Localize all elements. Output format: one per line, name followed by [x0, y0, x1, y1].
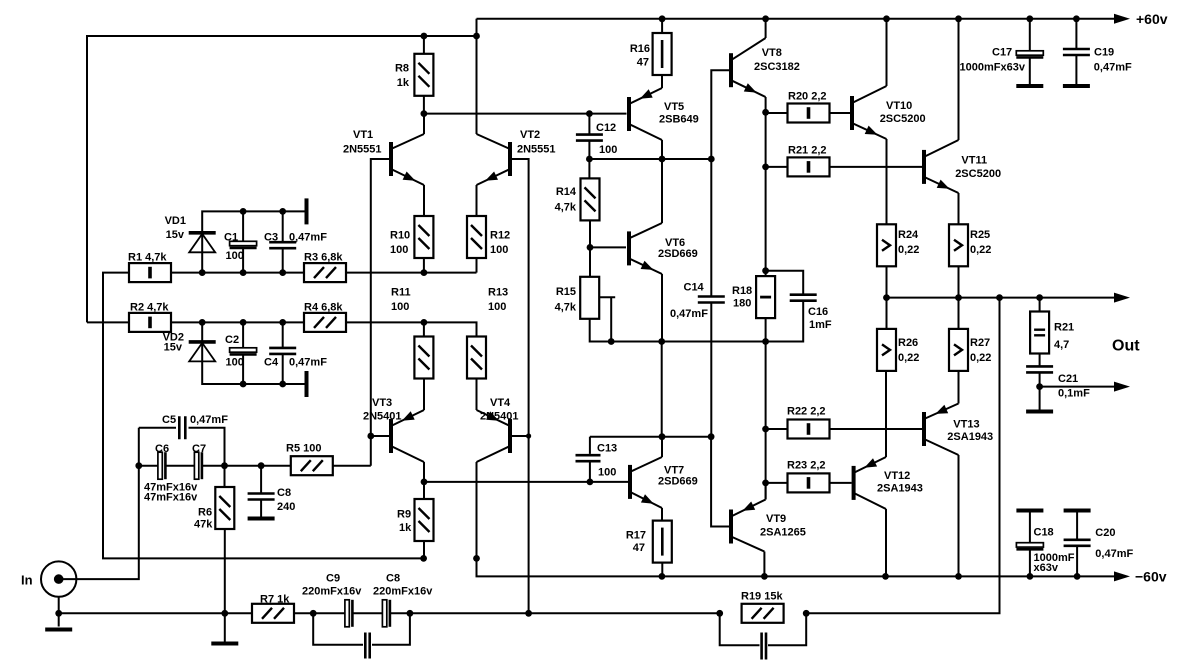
svg-text:2SA1943: 2SA1943: [947, 431, 993, 443]
junction C2 top: [240, 319, 247, 326]
junction R8 top on y36: [421, 33, 428, 40]
svg-text:0,22: 0,22: [970, 352, 991, 364]
wire R2 left: [87, 321, 129, 323]
wire R22 to VT13 base: [830, 428, 923, 430]
svg-text:R15: R15: [556, 286, 576, 298]
junction VT4 collector to -60: [473, 555, 480, 562]
junction In ground to bus: [55, 610, 62, 617]
ground R6: [211, 642, 238, 646]
svg-text:15v: 15v: [166, 229, 185, 241]
wire C13 bottom: [589, 461, 591, 482]
junction C3 top: [279, 208, 286, 215]
wire ground bus to R7: [59, 612, 252, 614]
svg-text:VT9: VT9: [766, 513, 786, 525]
svg-text:2N5401: 2N5401: [480, 411, 519, 423]
junction C20/-60: [1074, 573, 1081, 580]
wire C17 top lead: [1029, 19, 1031, 51]
wire C19 top lead: [1075, 19, 1077, 50]
wire C13 top: [589, 437, 591, 454]
transistor VT4 2N5401: [508, 419, 512, 453]
wire VT7 emitter to R17: [661, 508, 663, 522]
svg-text:R24: R24: [898, 229, 919, 241]
wire R18 top: [765, 271, 767, 277]
capacitor C9 220mF: [345, 600, 349, 627]
wire VT10 emitter to R24: [886, 139, 888, 225]
wire feedback node to R19: [529, 612, 720, 614]
svg-text:R26: R26: [898, 337, 918, 349]
wire C2 top lead: [242, 322, 244, 347]
svg-text:C8: C8: [277, 487, 291, 499]
svg-text:0,47mF: 0,47mF: [1094, 62, 1132, 74]
wire In signal: [59, 428, 139, 579]
zener diode VD1: [189, 231, 216, 235]
junction y36 to +60 riser: [473, 33, 480, 40]
wire R27 to VT13 emitter: [958, 370, 960, 403]
svg-text:Out: Out: [1112, 338, 1140, 355]
wire R9 top: [423, 482, 425, 500]
svg-text:C7: C7: [192, 443, 206, 455]
wire C20 top lead: [1076, 513, 1078, 540]
junction C13 bottom: [587, 479, 594, 486]
junction C2 bottom: [240, 381, 247, 388]
wire R7 to C9: [295, 612, 346, 614]
svg-text:R14: R14: [556, 186, 577, 198]
svg-text:R7 1k: R7 1k: [260, 594, 290, 606]
wire C8 top lead: [260, 466, 262, 493]
resistor R19: [742, 604, 784, 623]
wire C19 bottom lead: [1075, 55, 1077, 84]
svg-text:2SA1265: 2SA1265: [760, 527, 806, 539]
svg-text:VT5: VT5: [664, 101, 684, 113]
net Out rail: [887, 297, 1115, 299]
wire R16 bottom to VT5 emitter: [661, 75, 663, 88]
svg-text:C8: C8: [386, 573, 400, 585]
junction R8/VT1 collector: [421, 110, 428, 117]
wire VD1/C1/C3 top line y211.4: [202, 211, 306, 272]
transistor VT6 2SD669: [627, 231, 631, 265]
net +60v rail: [477, 18, 1115, 20]
svg-text:R16: R16: [630, 43, 650, 55]
transistor VT12 2SA1943: [852, 466, 856, 500]
arrow Out: [1114, 293, 1130, 303]
wire bypass loop under C9/C8: [313, 613, 363, 645]
wire R1 to R3: [171, 272, 304, 274]
svg-text:R4 6,8k: R4 6,8k: [304, 302, 343, 314]
junction VD1 bottom: [199, 269, 206, 276]
svg-text:R21: R21: [1054, 322, 1074, 334]
arrow return: [1114, 382, 1130, 392]
junction R21 Zobel top: [1036, 294, 1043, 301]
junction C14 bottom / VT9 base: [708, 433, 715, 440]
svg-text:C16: C16: [808, 306, 828, 318]
junction R21 left: [762, 164, 769, 171]
capacitor C19: [1063, 49, 1090, 55]
transistor VT3 2N5401: [389, 419, 393, 453]
resistor R4: [304, 313, 346, 332]
wire VT4 collector to -60: [476, 462, 478, 558]
svg-text:240: 240: [277, 501, 295, 513]
svg-text:VT12: VT12: [884, 470, 910, 482]
wire C14 bottom to VT9 base node: [710, 304, 712, 437]
wire R25 to Out: [958, 266, 960, 298]
junction R9 bottom on -60 line: [420, 555, 427, 562]
svg-text:47mFx16v: 47mFx16v: [144, 492, 198, 504]
wire VT2 emitter to R12: [476, 185, 478, 217]
wire R14 to R15: [589, 220, 591, 278]
wire C18 top lead: [1029, 513, 1031, 543]
svg-text:C20: C20: [1095, 527, 1115, 539]
junction C1 top: [240, 208, 247, 215]
resistor R1: [129, 263, 171, 282]
transistor VT8 2SC3182: [729, 53, 733, 87]
wire VT6 collector: [661, 159, 663, 223]
junction R23 left / VT9 emitter: [762, 480, 769, 487]
wire R22 left: [766, 428, 788, 430]
wire VT8 collector to +60: [765, 19, 767, 38]
svg-text:VD1: VD1: [165, 215, 186, 227]
svg-text:C6: C6: [155, 443, 169, 455]
svg-text:2SD669: 2SD669: [658, 476, 698, 488]
wire VAS upper bus y159: [589, 158, 711, 160]
junction C8 right: [407, 610, 414, 617]
svg-text:220mFx16v: 220mFx16v: [373, 586, 433, 598]
wire R2 to R4: [171, 321, 304, 323]
svg-text:C9: C9: [326, 573, 340, 585]
svg-text:C19: C19: [1094, 47, 1114, 59]
wire VT3 collector to R9 node: [423, 462, 425, 482]
wire C12 bottom lead: [588, 141, 590, 159]
wire R8 top: [423, 36, 425, 53]
wire VT1 collector: [423, 114, 425, 134]
ground wall C4 row: [305, 371, 309, 397]
resistor R22: [788, 420, 830, 439]
svg-text:4,7: 4,7: [1054, 339, 1069, 351]
junction VT11/+60: [955, 15, 962, 22]
svg-text:R11: R11: [391, 287, 411, 299]
transistor VT1 2N5551: [389, 142, 393, 176]
wire C5 loop top: [139, 427, 176, 429]
wire VT8 emitter down: [765, 97, 767, 271]
resistor R13: [467, 337, 486, 379]
svg-text:2SD669: 2SD669: [658, 248, 698, 260]
wire R6 bottom to ground: [224, 529, 226, 642]
wire VT1 base riser x370.8: [371, 159, 389, 466]
wire VT6 base: [590, 246, 626, 248]
wire R26 to VT12 emitter: [885, 370, 887, 457]
svg-text:In: In: [21, 573, 33, 588]
wire R11 bottom to VT3 emitter: [423, 379, 425, 411]
wire VT2 collector to +60: [476, 19, 478, 134]
connector In jack: [41, 561, 76, 596]
svg-text:47: 47: [633, 542, 645, 554]
resistor R20: [788, 104, 830, 123]
wire C6 to C7: [167, 465, 195, 467]
wire In ground: [58, 597, 60, 627]
junction R19 left: [716, 610, 723, 617]
svg-text:R27: R27: [970, 337, 990, 349]
wire R17 bottom: [661, 563, 663, 577]
wire VT3 base stub: [371, 435, 389, 437]
wire C4 bottom lead: [282, 354, 284, 385]
resistor R12: [467, 216, 486, 258]
wire VT10 collector to +60: [886, 19, 888, 86]
wire C5 right down: [189, 428, 225, 466]
wire C12 top lead: [588, 114, 590, 134]
resistor R3: [304, 263, 346, 282]
junction R11 top: [421, 319, 428, 326]
wire VT1 emitter to R10: [423, 185, 425, 217]
resistor R14: [581, 178, 600, 220]
svg-text:R9: R9: [397, 509, 411, 521]
wire R6 top: [224, 466, 226, 487]
junction C3 bottom: [279, 269, 286, 276]
svg-text:C4: C4: [264, 357, 279, 369]
junction VD2 top: [199, 319, 206, 326]
svg-text:C21: C21: [1058, 373, 1078, 385]
svg-text:2SC3182: 2SC3182: [754, 61, 800, 73]
capacitor C8 220mF: [382, 600, 386, 627]
junction C12 top: [586, 110, 593, 117]
wire VT9 collector to -60: [763, 552, 765, 577]
wire R15 wiper tap: [599, 296, 615, 298]
svg-text:R2 4,7k: R2 4,7k: [130, 302, 169, 314]
svg-text:R22 2,2: R22 2,2: [787, 406, 826, 418]
svg-text:C3: C3: [264, 232, 278, 244]
transistor VT11 2SC5200: [922, 150, 926, 184]
svg-text:−60v: −60v: [1135, 569, 1167, 585]
capacitor C4: [269, 348, 296, 354]
wire Out to R27: [958, 298, 960, 330]
wire C18 bottom lead: [1029, 549, 1031, 576]
svg-text:C12: C12: [596, 122, 616, 134]
svg-text:0,47mF: 0,47mF: [670, 308, 708, 320]
svg-text:2SB649: 2SB649: [659, 114, 699, 126]
svg-text:0,22: 0,22: [970, 244, 991, 256]
capacitor C18: [1016, 543, 1043, 547]
junction C8 top: [258, 462, 265, 469]
svg-text:100: 100: [598, 467, 616, 479]
svg-text:0,47mF: 0,47mF: [1095, 548, 1133, 560]
wire +60 feed to R2 (x87,y36): [87, 36, 477, 322]
ground C8 240: [248, 517, 275, 521]
svg-text:R25: R25: [970, 229, 990, 241]
ground C19: [1063, 84, 1090, 88]
capacitor C1: [230, 241, 257, 245]
resistor R21 Zobel: [1030, 312, 1049, 354]
capacitor C2: [230, 348, 257, 352]
junction C18/-60: [1027, 573, 1034, 580]
svg-text:15v: 15v: [164, 342, 183, 354]
wire VT6 emitter: [661, 274, 663, 342]
resistor R5: [291, 456, 333, 475]
transistor VT9 2SA1265: [729, 510, 733, 544]
junction VT6 emitter: [658, 338, 665, 345]
junction feedback takeoff: [996, 294, 1003, 301]
wire R21 left: [766, 166, 788, 168]
wire R10 bottom: [423, 257, 425, 272]
resistor R21: [788, 157, 830, 176]
svg-text:0,47mF: 0,47mF: [289, 232, 327, 244]
svg-text:R20 2,2: R20 2,2: [788, 91, 827, 103]
svg-text:4,7k: 4,7k: [555, 302, 577, 314]
net -60v rail: [477, 558, 1115, 576]
transistor VT2 2N5551: [508, 142, 512, 176]
wire VAS input bus y113.6: [424, 113, 627, 115]
junction R18 bottom: [762, 338, 769, 345]
wire C7 to R5: [203, 465, 292, 467]
resistor R16: [653, 33, 672, 75]
wire VT12 collector to -60: [885, 509, 887, 576]
wire VT11 emitter to R25: [958, 193, 960, 225]
wire C8 bottom lead: [260, 500, 262, 517]
svg-text:R5 100: R5 100: [286, 443, 321, 455]
wire C3 bottom lead: [282, 248, 284, 273]
wire VD2/C2/C4 bottom line y384: [202, 322, 306, 384]
wire VT2 base riser x528.6: [512, 159, 529, 613]
wire R8 bottom: [423, 96, 425, 113]
svg-text:1000mFx63v: 1000mFx63v: [960, 62, 1026, 74]
svg-text:100: 100: [488, 301, 506, 313]
resistor R9: [415, 499, 434, 541]
wire R18 bottom: [765, 318, 767, 342]
svg-text:100: 100: [490, 244, 508, 256]
capacitor C5: [179, 416, 185, 439]
resistor R11: [414, 337, 433, 379]
wire R24 to Out: [886, 266, 888, 298]
transistor VT13 2SA1943: [922, 412, 926, 446]
junction C21/return: [1036, 383, 1043, 390]
junction R18 top: [762, 267, 769, 274]
wire +60 riser x476: [476, 19, 478, 36]
capacitor C3: [269, 242, 296, 248]
junction R9 top / VT3 collector: [421, 479, 428, 486]
resistor R10: [414, 216, 433, 258]
wire R20 to VT10 base: [830, 112, 851, 114]
wire R21 Zobel top: [1039, 298, 1041, 312]
wire C20 bottom lead: [1076, 545, 1078, 576]
wire VT6 emitter node down to C13 line: [661, 342, 663, 437]
wire R23 left: [766, 482, 788, 484]
svg-text:2N5551: 2N5551: [517, 144, 556, 156]
junction VT7 collector: [659, 433, 666, 440]
svg-text:C17: C17: [992, 47, 1012, 59]
junction R20 left: [762, 109, 769, 116]
junction C9 left: [310, 610, 317, 617]
junction VT12/-60: [882, 573, 889, 580]
svg-text:R17: R17: [626, 530, 646, 542]
svg-text:1k: 1k: [397, 77, 410, 89]
svg-text:R13: R13: [488, 287, 508, 299]
junction VT6 base: [587, 244, 594, 251]
svg-text:47: 47: [637, 57, 649, 69]
junction VT3 base: [367, 433, 374, 440]
svg-text:R18: R18: [732, 285, 752, 297]
wire R16 top: [661, 19, 663, 33]
junction C19/+60: [1073, 15, 1080, 22]
wire C1 top lead: [242, 211, 244, 241]
wire C3 top lead: [282, 211, 284, 242]
svg-text:1mF: 1mF: [809, 319, 832, 331]
wire R15 bottom: [590, 319, 766, 342]
wire R20 left: [766, 112, 788, 114]
wire R11 top: [423, 322, 425, 336]
svg-text:R1 4,7k: R1 4,7k: [128, 252, 167, 264]
svg-text:R8: R8: [395, 63, 409, 75]
wire R21 to VT11 base: [830, 166, 923, 168]
resistor R8: [414, 54, 433, 96]
junction VT8/+60: [762, 15, 769, 22]
capacitor bypass loop: [365, 633, 369, 659]
wire VT9 emitter up: [765, 483, 767, 500]
capacitor C20: [1064, 540, 1091, 546]
wire C9 to C8: [354, 612, 383, 614]
wire C13 to VT7 base: [590, 481, 628, 483]
wire R5 to VT1/VT3 base riser: [332, 465, 371, 467]
svg-text:C18: C18: [1034, 527, 1054, 539]
resistor R17: [653, 521, 672, 563]
junction VT8 base: [708, 156, 715, 163]
junction feedback node: [525, 610, 532, 617]
svg-text:VT10: VT10: [886, 100, 912, 112]
junction R24/R26: [883, 294, 890, 301]
wire C21 bottom: [1039, 372, 1041, 410]
wire R1 left: [103, 273, 424, 559]
junction R22 left: [762, 426, 769, 433]
svg-text:+60v: +60v: [1136, 11, 1168, 27]
resistor R15: [580, 277, 599, 319]
svg-text:VT2: VT2: [520, 129, 540, 141]
svg-text:0,47mF: 0,47mF: [190, 414, 228, 426]
wire to C6: [139, 465, 158, 467]
junction R15 tap: [608, 338, 615, 345]
wire C8 to feedback node: [391, 612, 529, 614]
wire R21 to C21: [1039, 354, 1041, 368]
wire R4 to tail VT3/VT4: [346, 322, 477, 336]
svg-text:0,47mF: 0,47mF: [289, 357, 327, 369]
svg-text:VT11: VT11: [961, 155, 987, 167]
svg-text:0,22: 0,22: [898, 244, 919, 256]
svg-text:100: 100: [390, 244, 408, 256]
svg-text:R12: R12: [490, 230, 510, 242]
wire R14 top: [588, 159, 590, 179]
svg-text:2SC5200: 2SC5200: [880, 113, 926, 125]
ground C20: [1064, 509, 1091, 513]
ground C21: [1026, 410, 1053, 414]
svg-text:R3 6,8k: R3 6,8k: [304, 252, 343, 264]
junction C17/+60: [1026, 15, 1033, 22]
capacitor C8 240: [248, 494, 275, 500]
svg-text:0,1mF: 0,1mF: [1058, 388, 1090, 400]
wire Out to R26: [886, 298, 888, 330]
arrow -60v: [1114, 571, 1130, 581]
svg-text:2N5551: 2N5551: [343, 144, 382, 156]
ground C17: [1016, 84, 1043, 88]
wire R19 bypass loop: [720, 613, 760, 645]
svg-text:2N5401: 2N5401: [363, 411, 402, 423]
svg-text:C14: C14: [684, 282, 705, 294]
capacitor C16: [790, 295, 817, 301]
svg-text:C13: C13: [597, 443, 617, 455]
wire R12 bottom to tail: [476, 257, 478, 272]
svg-text:47k: 47k: [194, 519, 213, 531]
svg-text:100: 100: [599, 144, 617, 156]
ground C18: [1016, 509, 1043, 513]
svg-text:100: 100: [226, 357, 244, 369]
wire R13 bottom to VT4 emitter: [476, 379, 478, 411]
resistor R24: [877, 224, 896, 266]
svg-text:R23 2,2: R23 2,2: [787, 460, 826, 472]
wire VT5 collector: [661, 140, 663, 159]
